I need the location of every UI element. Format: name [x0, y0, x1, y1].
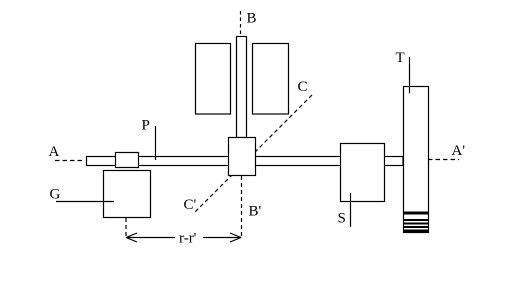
grating stripes at bottom of column T [403, 212, 429, 233]
axis A' dashed line (right) [428, 159, 459, 161]
shaft A-A' (horizontal) [87, 157, 404, 166]
dimension r-r' left arrow [126, 233, 175, 242]
pointer line T [409, 57, 411, 93]
svg-text:C: C [298, 79, 308, 95]
centre block (junction) [229, 138, 256, 176]
svg-text:B: B [247, 11, 257, 27]
svg-text:S: S [338, 211, 346, 227]
rod B-B' (vertical vibrator rod) [237, 37, 247, 138]
svg-text:C': C' [184, 197, 197, 213]
magnet pole right [253, 44, 289, 115]
axis B' dashed line (below centre block) [241, 176, 243, 238]
box G (gear box) [104, 171, 151, 218]
axis A dashed line (left) [55, 160, 85, 162]
pointer line G [56, 201, 114, 203]
magnet pole left [196, 44, 231, 115]
collar on shaft [116, 153, 139, 168]
svg-text:r-r': r-r' [179, 231, 197, 247]
axis C-C' dashed diagonal [194, 95, 312, 213]
axis B dashed line (top) [240, 11, 242, 36]
pointer line P [155, 126, 157, 160]
dashed projection line below G box [125, 218, 127, 238]
dimension r-r' right arrow [203, 233, 241, 242]
svg-text:P: P [142, 118, 150, 134]
svg-text:A': A' [452, 143, 466, 159]
box S [341, 144, 385, 202]
tall column T [404, 87, 429, 233]
svg-text:T: T [396, 50, 405, 66]
svg-text:B': B' [249, 204, 262, 220]
svg-text:G: G [50, 187, 61, 203]
svg-text:A: A [49, 144, 60, 160]
pointer line S [350, 193, 352, 227]
